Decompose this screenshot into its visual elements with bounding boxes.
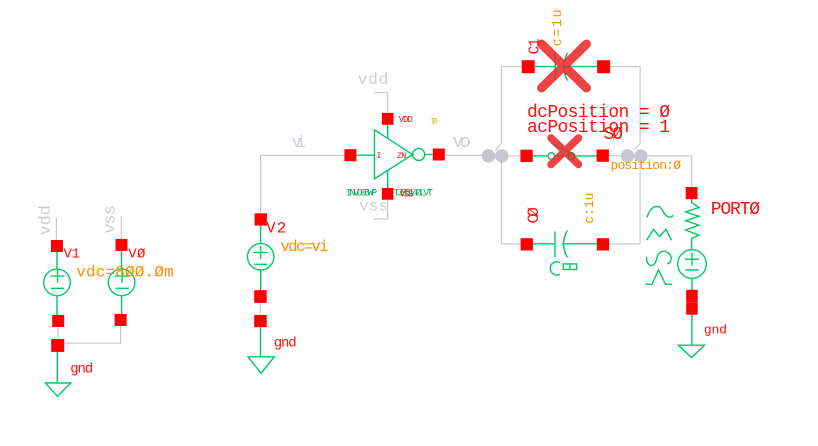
svg-text:vdc=vi: vdc=vi (281, 238, 329, 256)
svg-text:gnd: gnd (704, 323, 727, 338)
svg-text:ZN: ZN (397, 151, 407, 161)
svg-text:C1: C1 (528, 38, 544, 54)
svg-text:vdd: vdd (358, 71, 389, 89)
svg-text:c=1u: c=1u (551, 9, 566, 46)
svg-text:gnd: gnd (70, 362, 93, 378)
svg-text:INVD0BWP: INVD0BWP (346, 187, 378, 199)
svg-text:vo: vo (452, 132, 471, 153)
svg-text:V1: V1 (64, 247, 81, 263)
svg-text:IØ: IØ (430, 117, 437, 127)
svg-text:I: I (376, 151, 381, 161)
svg-text:CØ: CØ (525, 207, 543, 224)
svg-text:VØ: VØ (128, 247, 145, 263)
svg-text:PORTØ: PORTØ (711, 200, 760, 220)
svg-text:vss: vss (102, 205, 121, 234)
svg-text:VSS: VSS (400, 190, 414, 200)
svg-text:VDD: VDD (399, 115, 413, 125)
svg-text:acPosition = 1: acPosition = 1 (527, 118, 670, 138)
svg-text:SØ: SØ (604, 125, 624, 145)
svg-text:vi: vi (292, 134, 307, 153)
svg-text:c:1u: c:1u (582, 193, 597, 224)
svg-text:vdc=8ØØ.Øm: vdc=8ØØ.Øm (76, 264, 174, 282)
svg-text:vdd: vdd (37, 205, 56, 235)
svg-text:V2: V2 (266, 220, 286, 238)
svg-text:gnd: gnd (274, 335, 297, 351)
svg-text:position:Ø: position:Ø (611, 158, 682, 173)
svg-text:vss: vss (359, 198, 388, 216)
